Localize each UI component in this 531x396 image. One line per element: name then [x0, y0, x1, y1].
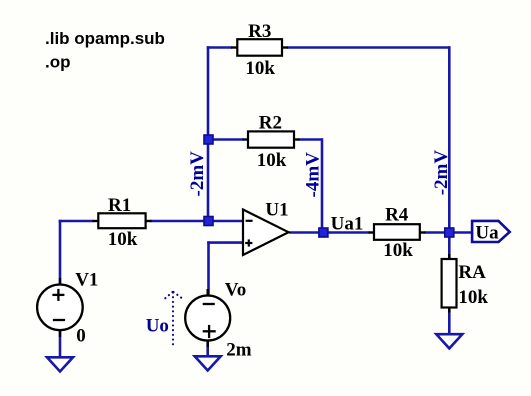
voltage source Vo plus mark	[203, 325, 216, 338]
voltage source V1	[37, 269, 98, 346]
node junction Ua1 (op-amp output)	[319, 228, 328, 237]
resistor R3	[231, 21, 288, 79]
wire left vertical (top corner to inverting node)	[207, 46, 210, 221]
resistor R4	[369, 204, 426, 261]
svg-text:.lib opamp.sub: .lib opamp.sub	[45, 29, 165, 48]
ground (below V1)	[47, 357, 73, 371]
wire Vo bottom to ground	[206, 340, 209, 356]
wire op-amp output to R4 left lead	[289, 231, 370, 234]
svg-text:R4: R4	[385, 204, 409, 225]
voltage source Vo	[185, 280, 252, 361]
ground (below Vo)	[195, 356, 221, 370]
node junction (R3/R2/left vertical)	[204, 135, 213, 144]
svg-text:10k: 10k	[257, 150, 287, 171]
wire R4 right lead to port Ua	[425, 231, 473, 234]
wire non-inverting input horizontal	[207, 241, 243, 244]
wire node Ua to RA top	[448, 233, 451, 260]
node junction (inverting input)	[204, 217, 213, 226]
wire right vertical (top corner to node Ua)	[448, 46, 451, 232]
wire R1 right lead to inverting input	[151, 220, 244, 223]
voltage source V1 minus mark	[53, 319, 65, 321]
svg-text:U1: U1	[265, 200, 288, 221]
svg-text:.op: .op	[45, 52, 71, 71]
wire V1 bottom to ground	[59, 330, 62, 357]
wire R2 to node Ua1 vertical	[321, 138, 324, 232]
svg-text:R1: R1	[108, 195, 131, 216]
op-amp U1 inverting input mark	[246, 220, 253, 222]
svg-text:Ua1: Ua1	[331, 213, 364, 234]
voltage source Vo minus mark	[203, 303, 215, 305]
svg-text:-2mV: -2mV	[187, 151, 208, 197]
wire non-inverting input to Vo vertical	[207, 241, 210, 296]
svg-text:10k: 10k	[383, 240, 413, 261]
wire top left (corner to R3 left lead)	[207, 46, 232, 49]
svg-text:2m: 2m	[226, 340, 252, 361]
svg-text:R2: R2	[259, 113, 282, 134]
wire V1 top vertical	[59, 220, 62, 285]
svg-text:-4mV: -4mV	[302, 152, 323, 198]
svg-text:10k: 10k	[245, 58, 275, 79]
wire R2 right segment	[299, 138, 323, 141]
wire RA bottom to ground	[448, 307, 451, 335]
wire top right (R3 right lead to right corner)	[287, 46, 450, 49]
svg-text:10k: 10k	[108, 229, 138, 250]
ground (below RA)	[436, 334, 462, 348]
svg-text:Uo: Uo	[146, 315, 169, 336]
wire V1 to R1 left lead	[59, 220, 94, 223]
svg-text:Vo: Vo	[225, 280, 246, 301]
svg-text:10k: 10k	[458, 287, 488, 308]
voltage source V1 plus mark	[52, 289, 64, 301]
port flag Ua	[472, 221, 510, 244]
wire R2 left segment	[208, 138, 244, 141]
op-amp U1 non-inverting input mark	[245, 239, 252, 246]
op-amp U1	[243, 200, 289, 256]
svg-text:-2mV: -2mV	[431, 150, 452, 196]
resistor R1	[93, 195, 152, 250]
annotation dotted arrow for Uo	[164, 292, 184, 348]
resistor RA	[442, 254, 489, 313]
resistor R2	[243, 113, 300, 171]
svg-text:Ua: Ua	[475, 223, 499, 244]
svg-text:0: 0	[76, 326, 86, 347]
svg-text:RA: RA	[458, 262, 486, 283]
node junction Ua (R4/RA/port)	[445, 228, 454, 237]
svg-text:R3: R3	[248, 21, 271, 42]
svg-text:V1: V1	[75, 269, 98, 290]
